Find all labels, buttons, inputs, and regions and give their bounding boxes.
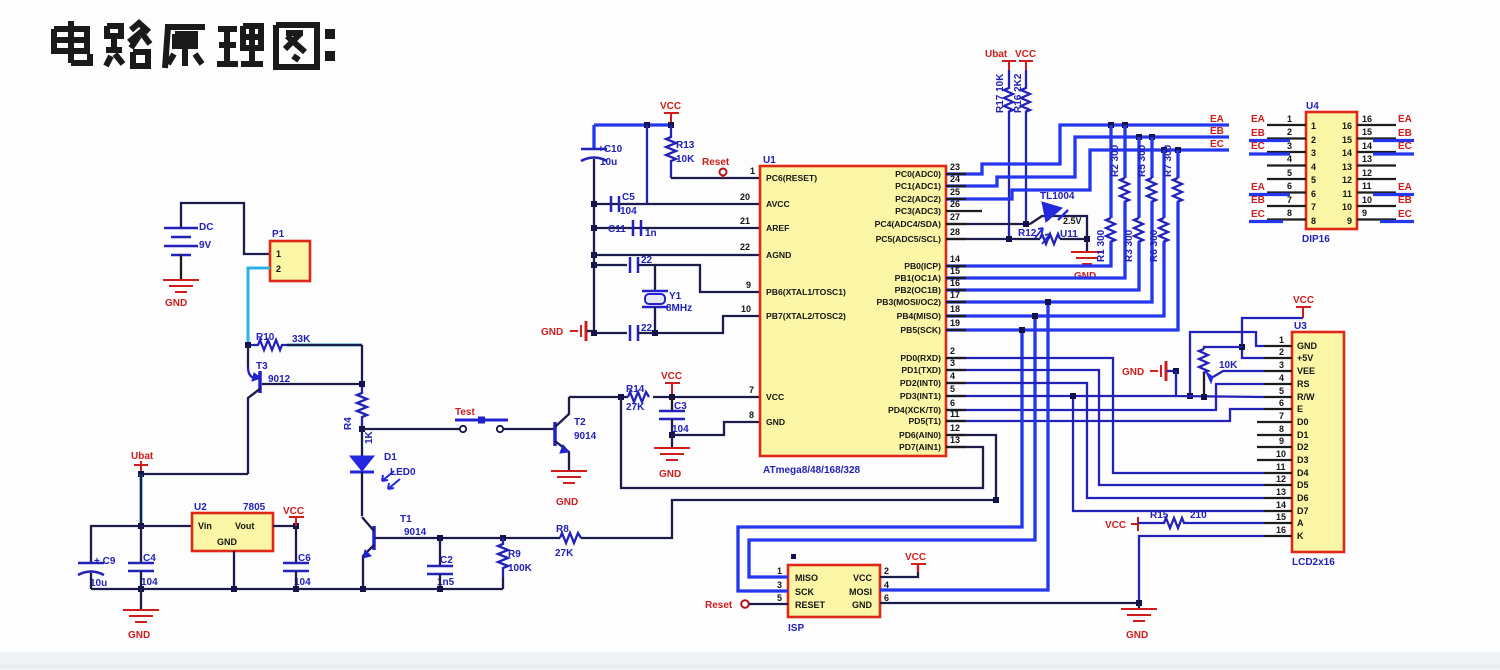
crystal top cap 22p (594, 264, 627, 266)
svg-text:D7: D7 (1297, 506, 1309, 516)
wire VCC to +5V pin2 (1242, 318, 1303, 358)
svg-text:3: 3 (777, 580, 782, 590)
svg-text:Reset: Reset (702, 157, 730, 168)
svg-text:D1: D1 (1297, 430, 1309, 440)
svg-text:R3 300: R3 300 (1124, 229, 1135, 262)
svg-text:D2: D2 (1297, 442, 1309, 452)
left pin stubs (1267, 125, 1306, 220)
black pin stubs right side of U1 (946, 174, 966, 447)
resistor R13 10K (666, 125, 676, 178)
resistor column R2 (EA) (946, 122, 1129, 278)
svg-text:5: 5 (1279, 386, 1284, 396)
svg-text:9014: 9014 (404, 527, 427, 538)
svg-text:13: 13 (1342, 162, 1352, 172)
svg-text:PB1(OC1A): PB1(OC1A) (895, 273, 941, 283)
svg-text:GND: GND (165, 298, 187, 309)
potentiometer RP1 10K (1199, 349, 1208, 373)
svg-text:2: 2 (1287, 127, 1292, 137)
svg-text:EB: EB (1210, 126, 1224, 137)
wire PD1 pin3 to LCD D5 (946, 370, 1264, 485)
wire R10 right down to base node (361, 345, 363, 384)
svg-text:EA: EA (1251, 182, 1265, 193)
test switch S1 (362, 428, 459, 430)
crystal bottom cap 22p (594, 332, 627, 334)
svg-text:28: 28 (950, 227, 960, 237)
svg-text:GND: GND (1122, 367, 1144, 378)
svg-text:T2: T2 (574, 417, 586, 428)
junction SCK/MISO/MOSI at U1 pins (1019, 327, 1025, 333)
svg-text:20: 20 (740, 192, 750, 202)
wire U2 GND pin down (233, 551, 235, 589)
svg-text:4: 4 (950, 371, 955, 381)
svg-text:1n: 1n (645, 228, 657, 239)
svg-text:D6: D6 (1297, 493, 1309, 503)
title colon (325, 29, 335, 61)
loop wire pin13 to R14 node (621, 397, 983, 488)
IC U1 ATmega (760, 166, 946, 456)
ground below C3 (671, 435, 673, 447)
svg-text:3: 3 (1287, 141, 1292, 151)
svg-text:+ C9: + C9 (94, 556, 116, 567)
wire Ubat down to Vin node (140, 474, 143, 526)
svg-text:EB: EB (1251, 128, 1265, 139)
wire PD0 pin2 to LCD D4 (946, 358, 1264, 473)
svg-text:+C10: +C10 (598, 144, 623, 155)
svg-text:EB: EB (1398, 195, 1412, 206)
ground below TL431 (1086, 239, 1088, 251)
svg-text:R12: R12 (1018, 228, 1037, 239)
svg-text:VCC: VCC (661, 371, 682, 382)
wire RS pin4 to MCU pin6 (946, 384, 1264, 410)
svg-text:PB2(OC1B): PB2(OC1B) (895, 285, 941, 295)
svg-text:PB4(MISO): PB4(MISO) (897, 311, 942, 321)
wire battery top loop (181, 203, 270, 254)
staircase wire pin24 to EB (946, 137, 1229, 186)
wire LED to T1 collector (361, 472, 363, 516)
svg-text:GND: GND (766, 417, 785, 427)
svg-text:Ubat: Ubat (985, 49, 1008, 60)
resistor R17 10K from Ubat (1004, 70, 1013, 112)
svg-text:14: 14 (1276, 500, 1286, 510)
svg-text:GND: GND (1126, 630, 1148, 641)
capacitor C11 1n on AREF (633, 220, 641, 236)
left rail down (593, 204, 595, 333)
svg-text:PC5(ADC5/SCL): PC5(ADC5/SCL) (876, 234, 942, 244)
svg-text:1: 1 (1279, 335, 1284, 345)
svg-text:RESET: RESET (795, 600, 826, 610)
vertical from bus to AVCC (646, 125, 648, 204)
svg-text:33K: 33K (292, 334, 311, 345)
wire E pin6 to MCU pin11 (946, 409, 1264, 421)
svg-text:6: 6 (1287, 181, 1292, 191)
svg-text:T1: T1 (400, 514, 412, 525)
svg-text:8: 8 (749, 410, 754, 420)
svg-text:PB0(ICP): PB0(ICP) (904, 261, 941, 271)
capacitor C2 (439, 538, 441, 566)
svg-text:19: 19 (950, 318, 960, 328)
svg-text:Ubat: Ubat (131, 451, 154, 462)
node R9 top (500, 535, 506, 541)
connector U4 DIP16 (1306, 112, 1357, 229)
svg-text:11: 11 (1342, 189, 1352, 199)
svg-text:11: 11 (1276, 462, 1286, 472)
LCD pin stubs (1257, 346, 1292, 536)
svg-text:PC1(ADC1): PC1(ADC1) (895, 181, 941, 191)
wire GND to pot bottom and R/W pin5 (1176, 371, 1264, 397)
svg-text:LED0: LED0 (390, 467, 416, 478)
svg-text:PD5(T1): PD5(T1) (909, 416, 942, 426)
svg-text:PD1(TXD): PD1(TXD) (901, 365, 941, 375)
svg-text:5: 5 (950, 384, 955, 394)
resistor R9 100K (498, 538, 508, 578)
LED D1 (350, 456, 374, 471)
svg-text:7805: 7805 (243, 502, 266, 513)
wire PD2 pin4 to LCD D6 (946, 383, 1264, 498)
right net labels (1398, 114, 1412, 220)
svg-text:PD4(XCK/T0): PD4(XCK/T0) (888, 405, 941, 415)
svg-text:VCC: VCC (1293, 295, 1314, 306)
ground below T2 (551, 471, 587, 483)
svg-text:21: 21 (740, 216, 750, 226)
svg-text:PB7(XTAL2/TOSC2): PB7(XTAL2/TOSC2) (766, 311, 846, 321)
svg-text:1: 1 (1287, 114, 1292, 124)
svg-text:PC3(ADC3): PC3(ADC3) (895, 206, 941, 216)
resistor R15 210 (1138, 518, 1264, 528)
wire pot top to +5V drop (1204, 347, 1242, 349)
AREF line pin21 (594, 227, 760, 229)
svg-text:PC2(ADC2): PC2(ADC2) (895, 194, 941, 204)
GND pin8 wire (672, 422, 760, 435)
svg-text:R2 300: R2 300 (1110, 144, 1121, 177)
resistor column R1 (EA) (946, 122, 1115, 266)
transistor T2 9014 (553, 422, 557, 446)
svg-text:2: 2 (276, 264, 281, 274)
svg-text:PD3(INT1): PD3(INT1) (900, 391, 941, 401)
capacitor C3 104 at pin7 (671, 397, 673, 411)
right pin stubs (1357, 125, 1396, 220)
svg-text:GND: GND (1297, 341, 1318, 351)
resistor column R5 (EB) (946, 134, 1156, 302)
svg-text:2: 2 (950, 346, 955, 356)
svg-text:A: A (1297, 518, 1304, 528)
svg-text:TL1004: TL1004 (1040, 191, 1075, 202)
wire Vout to VCC node (273, 525, 296, 527)
wire PD3 pin5 to LCD D7 (946, 396, 1264, 511)
svg-text:10: 10 (1276, 449, 1286, 459)
svg-text:D5: D5 (1297, 480, 1309, 490)
svg-text:PC4(ADC4/SDA): PC4(ADC4/SDA) (875, 219, 942, 229)
svg-text:VCC: VCC (905, 552, 926, 563)
svg-text:D0: D0 (1297, 417, 1309, 427)
svg-text:22: 22 (740, 242, 750, 252)
wire T3 collector to Ubat node (141, 473, 248, 475)
svg-text:9014: 9014 (574, 431, 597, 442)
capacitor C5 104 on AVCC (611, 196, 619, 212)
wire R4 to LED (361, 425, 363, 456)
resistor column R3 (EB) (946, 134, 1143, 290)
AVCC line pin20 (594, 203, 760, 205)
wire MISO loop (749, 316, 1035, 577)
left blue net stubs (1249, 141, 1290, 222)
svg-text:3: 3 (1279, 360, 1284, 370)
svg-text:PD2(INT0): PD2(INT0) (900, 378, 941, 388)
svg-text:Vin: Vin (198, 521, 212, 531)
svg-text:EB: EB (1251, 195, 1265, 206)
svg-text:R/W: R/W (1297, 392, 1315, 402)
svg-text:ATmega8/48/168/328: ATmega8/48/168/328 (763, 465, 861, 476)
svg-text:104: 104 (620, 206, 637, 217)
ground bottom right (1138, 603, 1140, 608)
svg-text:1K: 1K (364, 430, 375, 444)
wire PD6 pin12 to T1 base net (946, 435, 996, 500)
svg-text:10K: 10K (1219, 360, 1238, 371)
title char 理 (217, 26, 263, 64)
svg-text:16: 16 (1342, 121, 1352, 131)
svg-text:Vout: Vout (235, 521, 254, 531)
svg-text:PD7(AIN1): PD7(AIN1) (899, 442, 941, 452)
resistor R16 2K2 from VCC (1021, 70, 1030, 112)
title char 图 (276, 25, 317, 67)
svg-text:AREF: AREF (766, 223, 789, 233)
wire battery to ground (180, 255, 182, 279)
svg-text:C11: C11 (608, 224, 626, 235)
svg-text:1: 1 (276, 249, 281, 259)
svg-text:GND: GND (659, 469, 681, 480)
svg-text:C6: C6 (298, 553, 311, 564)
LCD pin numbers (1276, 335, 1286, 535)
svg-text:R4: R4 (343, 417, 354, 430)
svg-text:25: 25 (950, 187, 960, 197)
AGND line pin22 (594, 254, 760, 256)
svg-text:3: 3 (1311, 148, 1316, 158)
svg-text:1: 1 (750, 166, 755, 176)
svg-text:R17 10K: R17 10K (995, 73, 1006, 113)
wire T1 base line (375, 537, 560, 539)
crystal Y1 8MHz (642, 291, 668, 307)
svg-text:EB: EB (1398, 128, 1412, 139)
svg-text:MOSI: MOSI (849, 587, 872, 597)
svg-text:12: 12 (1362, 168, 1372, 178)
svg-text:EC: EC (1398, 141, 1412, 152)
svg-text:PB5(SCK): PB5(SCK) (900, 325, 941, 335)
svg-text:8: 8 (1279, 424, 1284, 434)
svg-text:GND: GND (128, 630, 150, 641)
svg-text:VCC: VCC (766, 392, 784, 402)
svg-text:Y1: Y1 (669, 291, 682, 302)
capacitor C6 104 (295, 526, 297, 563)
svg-text:GND: GND (852, 600, 873, 610)
svg-text:EA: EA (1251, 114, 1265, 125)
svg-text:EC: EC (1210, 139, 1224, 150)
svg-text:23: 23 (950, 162, 960, 172)
wire SCK loop (738, 330, 1022, 591)
svg-text:U2: U2 (194, 502, 207, 513)
svg-text:DC: DC (199, 222, 213, 233)
svg-text:R1 300: R1 300 (1096, 229, 1107, 262)
svg-text:7: 7 (1279, 411, 1284, 421)
svg-text:10u: 10u (90, 578, 107, 589)
svg-text:15: 15 (1276, 512, 1286, 522)
svg-text:5: 5 (1287, 168, 1292, 178)
svg-text:14: 14 (1342, 148, 1352, 158)
wire Vin line (141, 525, 192, 527)
svg-text:4: 4 (1279, 373, 1284, 383)
regulator U2 7805 (192, 513, 273, 551)
svg-text:8MHz: 8MHz (666, 303, 692, 314)
svg-text:8: 8 (1311, 216, 1316, 226)
svg-text:PB6(XTAL1/TOSC1): PB6(XTAL1/TOSC1) (766, 287, 846, 297)
svg-text:EC: EC (1251, 209, 1265, 220)
title char 电 (54, 21, 90, 63)
svg-text:8: 8 (1287, 208, 1292, 218)
ISP pin numbers (777, 566, 889, 603)
svg-text:VCC: VCC (1105, 520, 1126, 531)
svg-text:AVCC: AVCC (766, 199, 790, 209)
ground below battery (163, 280, 199, 292)
svg-text:15: 15 (1342, 135, 1352, 145)
svg-text:VEE: VEE (1297, 366, 1315, 376)
svg-text:EC: EC (1251, 141, 1265, 152)
svg-text:Test: Test (455, 407, 475, 418)
svg-text:EA: EA (1398, 114, 1412, 125)
wire K pin16 down to GND node (1139, 536, 1264, 603)
svg-text:+5V: +5V (1297, 353, 1313, 363)
ground rail bottom left (91, 588, 503, 590)
node R4 / test line (359, 426, 365, 432)
svg-text:PB3(MOSI/OC2): PB3(MOSI/OC2) (877, 297, 942, 307)
svg-text:9: 9 (1362, 208, 1367, 218)
resistor R4 vertical (T3 base chain) (357, 387, 367, 425)
svg-text:7: 7 (1287, 195, 1292, 205)
svg-text:13: 13 (1276, 487, 1286, 497)
right internal numbers (1342, 121, 1352, 226)
svg-text:U3: U3 (1294, 321, 1307, 332)
capacitor C10 10u (592, 125, 595, 149)
right blue net stubs (1373, 141, 1414, 222)
svg-text:27: 27 (950, 212, 960, 222)
svg-text:2: 2 (1311, 135, 1316, 145)
svg-text:EA: EA (1398, 182, 1412, 193)
svg-text:14: 14 (950, 254, 960, 264)
node C2 top (437, 535, 443, 541)
svg-text:2: 2 (884, 566, 889, 576)
svg-text:LCD2x16: LCD2x16 (1292, 557, 1335, 568)
right external pin numbers (1362, 114, 1372, 218)
svg-text:27K: 27K (626, 402, 645, 413)
svg-text:9: 9 (1279, 436, 1284, 446)
node P1 pin2/R10 (245, 342, 251, 348)
svg-text:R14: R14 (626, 384, 645, 395)
svg-text:1: 1 (1311, 121, 1316, 131)
pin27 line (946, 223, 1030, 225)
svg-text:9: 9 (746, 280, 751, 290)
wire MOSI loop (880, 302, 1048, 590)
svg-text:6: 6 (1279, 398, 1284, 408)
staircase wire pin23 to EA (946, 125, 1229, 174)
svg-text:R10: R10 (256, 332, 275, 343)
svg-text:R16 2K2: R16 2K2 (1013, 73, 1024, 113)
svg-text:C4: C4 (143, 553, 156, 564)
svg-text:U4: U4 (1306, 101, 1319, 112)
svg-text:16: 16 (1276, 525, 1286, 535)
staircase wire pin25 to EC (946, 150, 1229, 199)
svg-text:7: 7 (1311, 202, 1316, 212)
svg-text:VCC: VCC (1015, 49, 1036, 60)
svg-text:10u: 10u (600, 157, 617, 168)
resistor column R7 (EC) (946, 144, 1182, 330)
pin28 line with R12 (946, 238, 1040, 240)
svg-text:PC6(RESET): PC6(RESET) (766, 173, 817, 183)
pin26 stub (946, 210, 982, 212)
svg-text:R5 300: R5 300 (1137, 144, 1148, 177)
title char 路 (106, 23, 150, 66)
svg-text:ISP: ISP (788, 623, 804, 634)
resistor R10 33K (251, 340, 287, 350)
svg-text:EA: EA (1210, 114, 1224, 125)
svg-text:10K: 10K (676, 154, 695, 165)
svg-text:7: 7 (749, 385, 754, 395)
svg-text:5: 5 (777, 593, 782, 603)
transistor T1 9014 (372, 526, 376, 550)
svg-text:10: 10 (1342, 202, 1352, 212)
svg-text:100K: 100K (508, 563, 533, 574)
left external pin numbers (1287, 114, 1292, 218)
wire XTAL1 (655, 265, 760, 292)
svg-text:4: 4 (1311, 162, 1316, 172)
svg-text:2.5V: 2.5V (1063, 216, 1082, 226)
svg-text:16: 16 (1362, 114, 1372, 124)
svg-text:12: 12 (950, 423, 960, 433)
svg-text:9: 9 (1347, 216, 1352, 226)
svg-text:C2: C2 (440, 555, 453, 566)
svg-text:SCK: SCK (795, 587, 815, 597)
svg-text:Reset: Reset (705, 600, 733, 611)
wire ISP VCC pin2 (880, 564, 918, 577)
connector U3 LCD2x16 (1292, 332, 1344, 552)
svg-text:AGND: AGND (766, 250, 791, 260)
left internal numbers (1311, 121, 1316, 226)
battery BT1 DC 9V (164, 228, 198, 255)
svg-text:11: 11 (1362, 181, 1372, 191)
svg-text:12: 12 (1276, 474, 1286, 484)
title char 原 (165, 27, 205, 68)
connector P1 (270, 241, 310, 281)
svg-text:27K: 27K (555, 548, 574, 559)
svg-text:RS: RS (1297, 379, 1310, 389)
svg-text:R7 300: R7 300 (1163, 144, 1174, 177)
svg-text:U1: U1 (763, 155, 776, 166)
wire C9 top (91, 526, 141, 563)
svg-text:2: 2 (1279, 347, 1284, 357)
connector ISP (788, 565, 880, 617)
svg-text:GND: GND (541, 327, 563, 338)
svg-text:K: K (1297, 531, 1304, 541)
TL431 U11 TL1004 (1030, 216, 1087, 239)
svg-text:D4: D4 (1297, 468, 1309, 478)
svg-text:PC0(ADC0): PC0(ADC0) (895, 169, 941, 179)
ground symbol below C4 (140, 589, 142, 609)
left net labels (1251, 114, 1265, 220)
svg-text:P1: P1 (272, 229, 285, 240)
svg-text:10: 10 (741, 304, 751, 314)
pin numbers right side of U1 (950, 162, 960, 445)
svg-text:D3: D3 (1297, 455, 1309, 465)
svg-text:R13: R13 (676, 140, 695, 151)
VCC bus thick (594, 123, 671, 126)
svg-text:15: 15 (1362, 127, 1372, 137)
svg-text:VCC: VCC (283, 506, 304, 517)
svg-text:PD0(RXD): PD0(RXD) (900, 353, 941, 363)
